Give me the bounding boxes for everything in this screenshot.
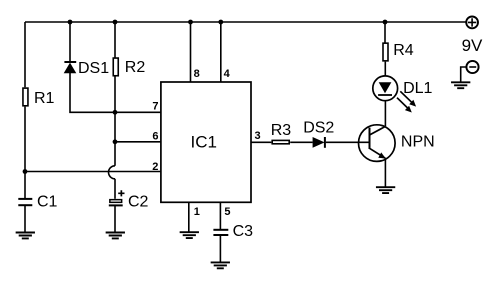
- wire R3 to DS2: [290, 141, 312, 143]
- wire R4 to DL1: [384, 62, 386, 76]
- capacitor C2 (polarized): [109, 190, 125, 205]
- svg-text:C2: C2: [128, 194, 149, 211]
- junction dot node A (R1/C1/pin2): [23, 169, 28, 174]
- svg-text:DL1: DL1: [403, 80, 432, 97]
- op-amp U1 box: IC1: [161, 82, 251, 202]
- svg-text:R2: R2: [125, 59, 146, 76]
- svg-text:9V: 9V: [462, 36, 483, 55]
- wire pin 8 to rail: [190, 22, 192, 82]
- resistor R1: [23, 88, 28, 106]
- capacitor C1: [18, 199, 32, 205]
- svg-text:R1: R1: [34, 90, 55, 107]
- svg-text:R3: R3: [271, 122, 292, 139]
- junction dot rail/R2: [113, 20, 118, 25]
- wire pin 6 stub: [115, 141, 161, 143]
- LED DL1: [373, 76, 398, 101]
- diode DS1: [64, 62, 77, 73]
- battery positive terminal: [466, 17, 478, 29]
- wire rail to R4: [384, 22, 386, 44]
- ground (emitter): [376, 187, 395, 193]
- junction dot rail/pin8: [188, 20, 193, 25]
- junction dot node C (pin6): [113, 139, 118, 144]
- svg-text:5: 5: [224, 206, 230, 218]
- wire C1 to ground: [24, 205, 26, 232]
- wire C2 to ground: [114, 205, 116, 232]
- ground (C2): [106, 233, 125, 239]
- wire rail to R2 top: [114, 22, 116, 58]
- wire top +V rail: [25, 21, 466, 23]
- wire pin 3 stub: [251, 141, 271, 143]
- svg-text:7: 7: [152, 101, 158, 113]
- wire R2 bottom through node B to hop top: [114, 76, 116, 166]
- wire pin 1 to ground: [188, 202, 190, 232]
- wire left vertical (rail to R1): [24, 22, 26, 87]
- wire DS1 cathode to rail: [69, 22, 71, 62]
- svg-text:1: 1: [194, 206, 200, 218]
- resistor R2: [113, 58, 118, 76]
- svg-text:IC1: IC1: [191, 132, 217, 151]
- wire hop bottom to C2: [114, 179, 116, 199]
- resistor R3: [272, 140, 289, 143]
- transistor Q1 NPN: [359, 125, 396, 162]
- resistor R4: [383, 43, 388, 61]
- svg-text:C3: C3: [233, 223, 254, 240]
- wire DS1 anode down and right to node B: [70, 73, 115, 112]
- svg-text:2: 2: [152, 161, 158, 173]
- svg-text:6: 6: [152, 131, 158, 143]
- LED light arrow 1: [400, 91, 416, 106]
- svg-text:DS2: DS2: [303, 120, 334, 137]
- svg-text:4: 4: [224, 68, 231, 80]
- svg-text:DS1: DS1: [78, 60, 109, 77]
- wire pin 7 stub: [115, 111, 161, 113]
- wire DL1 to collector: [384, 101, 386, 127]
- ground (C3): [211, 262, 230, 268]
- ground (C1): [16, 233, 35, 239]
- wire battery minus elbow: [461, 67, 467, 82]
- wire pin 4 to rail: [220, 22, 222, 82]
- svg-text:NPN: NPN: [401, 134, 435, 151]
- junction dot rail/DS1: [68, 20, 73, 25]
- junction dot rail/pin4: [218, 20, 223, 25]
- wire R1 bottom to C1 top: [24, 107, 26, 199]
- wire C3 to ground: [219, 235, 221, 262]
- svg-text:C1: C1: [37, 193, 58, 210]
- wire pin 5 to C3: [219, 202, 221, 229]
- svg-text:8: 8: [194, 68, 200, 80]
- junction dot rail/R4: [383, 20, 388, 25]
- wire hop over pin2 line: [109, 166, 115, 179]
- ground (battery): [451, 82, 470, 88]
- wire node A to pin 2: [25, 171, 161, 173]
- junction dot node B (DS1/R2/pin7): [113, 110, 118, 115]
- svg-text:3: 3: [255, 130, 261, 142]
- LED light arrow 2: [397, 98, 412, 113]
- wire emitter to ground: [384, 158, 386, 187]
- diode DS2: [313, 137, 325, 148]
- svg-text:R4: R4: [393, 42, 414, 59]
- wire DS2 to NPN base: [326, 141, 370, 143]
- ground (pin 1): [180, 232, 199, 238]
- battery negative terminal: [466, 61, 478, 73]
- capacitor C3: [213, 230, 228, 235]
